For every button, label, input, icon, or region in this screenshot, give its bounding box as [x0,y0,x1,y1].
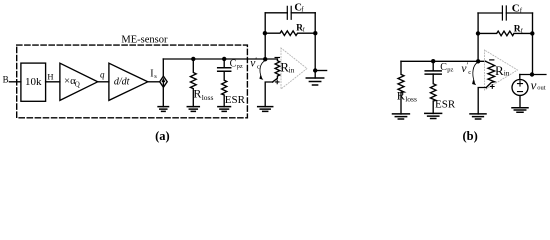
junction node C_pz (b) [431,59,435,63]
d/dt differentiator triangle [109,63,148,100]
op-amp plus input wire (b) [478,88,486,114]
label C_f (a) [294,3,304,14]
label C_pz (a) [230,59,243,70]
svg-text:R: R [514,24,521,34]
minus sign (b) [490,59,494,61]
wire d/dt to source [148,81,160,83]
svg-text:Q: Q [75,81,80,89]
output node dot (b) [530,72,534,76]
junction node R_loss [191,57,195,61]
output wire (b) [520,74,546,76]
feedback left vertical (a) [264,13,266,59]
capacitor C_pz (a) [223,59,225,67]
resistor ESR (a) [222,71,227,106]
wire 10k to amplifier [46,81,60,83]
amplifier xAlphaQ triangle [60,63,98,100]
ground (ESR b) [425,113,442,118]
V'c label [250,56,260,71]
ME-sensor label [121,35,168,46]
capacitor C_f plates (a) [287,6,291,19]
minus sign (a) [275,57,279,59]
feedback right vertical (b) [532,13,534,75]
label ESR (a) [225,94,246,106]
resistor R_f (b) [478,31,533,36]
svg-text:out: out [537,85,546,92]
top rail (a) [163,58,277,60]
svg-text:R: R [397,88,405,102]
svg-text:v: v [531,77,537,92]
label ESR (b) [435,98,456,110]
block 10k [21,63,46,101]
svg-text:ESR: ESR [225,94,246,106]
op-amp plus input wire (a) [265,82,273,107]
op-amp U1 ghost triangle (b) [485,50,518,90]
svg-text:q: q [100,69,105,79]
output node dot (a) [313,68,317,72]
top wire with capacitor C_f (b) [478,12,533,14]
top wire with capacitor C_f (a) [265,12,315,14]
label C_f (b) [512,3,523,15]
ground (v_out) [512,108,528,113]
wire diamond up to top rail [162,59,164,76]
feedback right vertical (a) [314,13,316,71]
label xAlphaQ [64,75,80,89]
resistor R_f (a) [265,31,315,36]
label R_in (a) [280,60,294,75]
R_f end junction dots (b) [476,31,480,35]
svg-text:ME-sensor: ME-sensor [121,35,168,46]
node Is label [150,69,157,81]
svg-text:pz: pz [237,63,243,70]
plus sign (b) [491,85,495,89]
svg-text:d/dt: d/dt [114,77,130,88]
ground (op-amp + input a) [258,107,273,112]
dashed box ME-sensor [17,45,248,118]
svg-text:ESR: ESR [435,98,456,110]
capacitor C_f plates (b) [502,6,506,20]
svg-text:c: c [257,64,260,71]
node B label [3,74,9,84]
wire B to 10k box [9,81,21,83]
op-amp U1 ghost triangle (a) [281,48,307,89]
ground (op-amp + input b) [470,114,486,119]
dependent current source (diamond) [160,76,168,87]
resistor R_in (b) [486,61,495,87]
caption (a) [155,129,170,143]
capacitor C_pz (b) [432,61,434,70]
label R_loss (a) [193,87,213,103]
svg-text:in: in [289,65,295,74]
svg-text:(a): (a) [155,129,170,143]
wire v_out to ground [519,96,521,108]
ground (diamond source) [158,107,168,112]
node q label [100,69,105,79]
voltage source v_out stub [519,75,521,80]
label d/dt [114,77,130,88]
wire amplifier to d/dt [98,81,109,83]
ground (ESR a) [218,107,231,112]
v'c curved arrow (b) [473,62,478,82]
resistor R_loss (b) [398,61,404,114]
v'c label (b) [461,61,471,76]
svg-text:10k: 10k [25,76,42,88]
svg-text:R: R [495,63,504,78]
resistor ESR (b) [430,74,436,113]
label R_f (a) [296,23,306,33]
wire diamond down to ground [162,87,164,106]
node V'c junction dot [263,57,267,61]
V'c curved arrow [260,61,265,78]
R_f end junction dots [263,31,267,35]
resistor R_loss (a) [190,59,196,107]
svg-text:in: in [504,69,510,78]
svg-text:C: C [230,59,237,70]
label 10k [25,76,42,88]
svg-text:c: c [468,69,471,76]
label C_pz (b) [440,62,453,74]
plus sign (a) [275,80,279,84]
v_out label [531,77,546,92]
svg-text:(b): (b) [462,129,477,143]
label R_in (b) [495,63,510,78]
node v'c junction dot (b) [476,59,480,63]
svg-text:loss: loss [405,95,417,104]
svg-text:loss: loss [202,93,214,102]
top rail (b) [401,60,486,62]
svg-text:I: I [150,69,153,80]
svg-text:B: B [3,74,9,84]
output ground stub (a) [314,71,316,79]
svg-text:R: R [193,87,201,101]
ground (output a) [306,78,323,85]
ground (R_loss a) [187,107,199,112]
ground (R_loss b) [393,114,410,119]
svg-text:H: H [47,71,53,81]
label R_loss (b) [397,88,417,103]
output wire (a) [315,70,326,72]
svg-text:pz: pz [447,67,453,74]
caption (b) [462,129,477,143]
label R_f (b) [514,24,524,34]
feedback left vertical (b) [477,13,479,61]
svg-text:C: C [512,3,520,15]
resistor R_in (a) [273,59,280,82]
junction node C_pz [222,57,226,61]
node H label [47,71,53,81]
voltage source v_out circle [512,80,528,96]
